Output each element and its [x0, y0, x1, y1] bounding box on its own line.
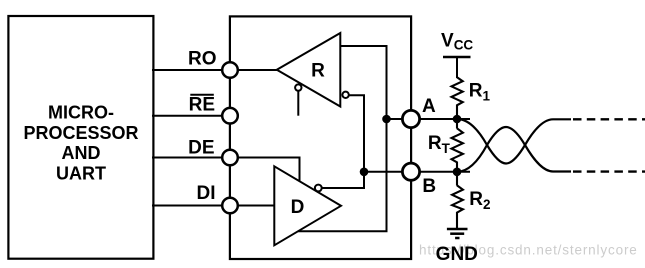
svg-text:RO: RO — [188, 49, 217, 70]
svg-text:AND: AND — [62, 143, 101, 163]
svg-text:UART: UART — [56, 163, 106, 183]
svg-text:PROCESSOR: PROCESSOR — [23, 123, 138, 143]
svg-text:D: D — [291, 197, 305, 218]
svg-text:B: B — [422, 176, 436, 197]
svg-text:DI: DI — [197, 183, 216, 204]
svg-text:R: R — [311, 61, 325, 82]
svg-text:A: A — [422, 96, 436, 117]
svg-text:DE: DE — [188, 138, 214, 159]
svg-text:GND: GND — [436, 244, 478, 265]
svg-text:RE: RE — [189, 95, 215, 116]
svg-text:MICRO-: MICRO- — [48, 102, 114, 122]
